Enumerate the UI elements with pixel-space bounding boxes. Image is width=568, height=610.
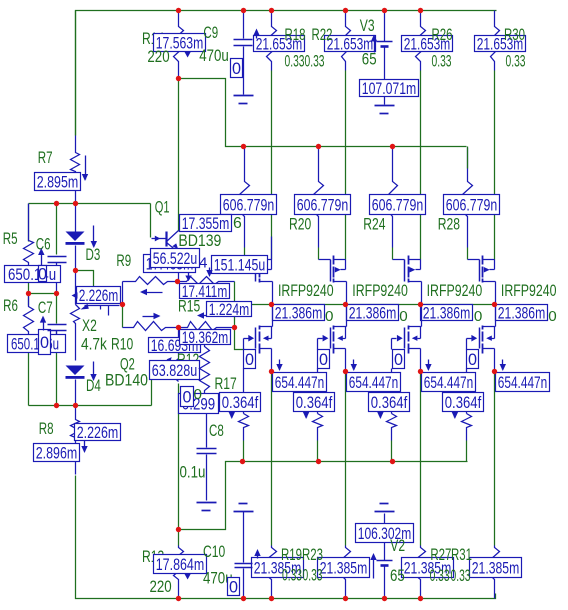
svg-text:BD139: BD139 [178,231,221,250]
value box R8 2.896m [34,444,80,463]
junction [316,459,321,464]
wire source column 3 down [420,372,422,546]
current arrow source 4 [502,360,504,370]
capacitor C6 [48,256,67,258]
svg-text:R27: R27 [430,545,451,564]
svg-text:IRFP9240: IRFP9240 [427,281,483,300]
value box gate 1 0.364f [220,393,261,413]
current arrow R8 [84,441,86,452]
value box R8 2.226m [75,423,121,442]
junction [269,302,274,307]
resistor R11 (Q1 emitter to output) [179,277,235,285]
resistor R23 [342,546,351,591]
value box gate 2 0.364f [294,393,335,413]
value box source 1 654.447n [273,373,327,393]
svg-text:R19: R19 [281,545,302,564]
value box V3 107.071m [360,79,419,98]
svg-text:0.364f: 0.364f [445,393,482,412]
value box source 2 654.447n [347,373,401,393]
junction [73,201,78,206]
current box C6 zero [38,266,47,284]
resistor R5 [24,204,34,266]
junction [241,144,246,149]
potentiometer X2 wiper [85,305,120,307]
svg-text:21.386m: 21.386m [498,304,546,323]
svg-text:C9: C9 [203,23,218,42]
wire D3 junction to current box [76,271,94,288]
junction [232,325,237,330]
MOSFET M4 upper IRFP9240 [480,256,496,305]
svg-text:0: 0 [394,351,403,369]
svg-text:0: 0 [182,389,191,407]
junction [26,291,31,296]
junction [120,302,125,307]
value box R14 17.563m [154,34,206,53]
svg-text:21.385m: 21.385m [472,559,520,578]
svg-text:107.071m: 107.071m [362,79,417,98]
svg-text:0.33: 0.33 [282,566,302,585]
svg-text:0.33: 0.33 [451,566,471,585]
svg-text:R22: R22 [312,25,333,44]
current arrow R13 [184,574,190,580]
junction [73,268,78,273]
value box M4 21.386m [496,304,548,323]
current arrow D4 [93,362,95,380]
svg-text:R17: R17 [215,374,237,393]
svg-text:0.33: 0.33 [430,566,450,585]
junction [269,8,274,13]
svg-text:21.385m: 21.385m [320,559,368,578]
current box gate 4 zero [467,350,479,370]
current box C10 zero [228,578,240,597]
svg-text:R9: R9 [116,251,131,270]
resistor R6 [24,294,34,335]
junction [390,459,395,464]
svg-text:BD140: BD140 [105,371,148,390]
current arrow R14 [184,52,190,58]
svg-text:R23: R23 [302,545,323,564]
svg-text:C7: C7 [38,298,53,317]
ground C8 [197,502,217,504]
value box 151.145u [212,256,268,275]
MOSFET M1 upper IRFP9240 [256,256,273,305]
svg-text:1.224m: 1.224m [209,300,250,319]
resistor R31 [491,546,500,591]
current box gate 1 zero [244,350,256,370]
svg-text:470u: 470u [199,46,229,65]
svg-text:2.226m: 2.226m [77,423,119,442]
current arrow source 3 [428,360,430,370]
value box R26 21.653m [402,35,453,54]
svg-text:0.33: 0.33 [506,52,526,71]
svg-text:220: 220 [147,47,169,66]
capacitor C7 [48,324,67,326]
resistor R18 [267,11,277,71]
svg-text:IRFP9240: IRFP9240 [501,281,557,300]
gate resistor R29 lower [462,369,472,462]
svg-text:0.33: 0.33 [285,52,305,71]
junction [241,8,246,13]
svg-text:R28: R28 [438,215,460,234]
wire bias row y405 [29,405,152,407]
svg-text:654.447n: 654.447n [424,373,474,392]
svg-text:0.33: 0.33 [432,52,452,71]
pin stub X2 wiper 1 [100,306,102,310]
svg-text:21.386m: 21.386m [423,304,471,323]
value box R22 21.653m [325,35,376,54]
svg-text:R8: R8 [39,419,54,438]
value box source 4 654.447n [496,373,550,393]
svg-text:C8: C8 [209,421,224,440]
junction [343,302,348,307]
value box R16 606.779n [221,195,277,215]
current arrow emitter Q1 [209,268,211,276]
svg-text:C10: C10 [203,542,225,561]
current box gate 3 zero [393,350,405,370]
wire top supply rail [76,11,497,136]
current arrow R9 [143,292,163,294]
value box R28 606.779n [444,195,500,215]
value box R24 606.779n [370,195,426,215]
value box V2 106.302m [356,524,414,544]
value box R13 17.864m [154,555,207,575]
svg-text:0.364f: 0.364f [222,393,259,412]
junction [73,403,78,408]
value box R20 606.779n [295,195,351,215]
wire Q1 collector from rail [178,79,180,232]
value box R19 21.385m [252,558,304,578]
wire Q2 base riser [151,371,153,406]
pin stub X2 wiper 2 [108,306,110,316]
gate lead arrow M8 [467,335,478,350]
wire R6 bottom to bias row [28,352,30,406]
svg-text:606.779n: 606.779n [223,196,275,215]
svg-text:0: 0 [232,60,241,78]
svg-text:151.145u: 151.145u [214,256,266,275]
svg-text:R30: R30 [504,25,525,44]
value box Q1 56.522u [151,249,200,269]
junction [382,8,387,13]
svg-text:21.386m: 21.386m [275,304,323,323]
svg-text:654.447n: 654.447n [349,373,399,392]
value box R15 1.224m [207,300,252,319]
current box C7 zero [39,330,51,355]
junction [176,527,181,532]
svg-text:0: 0 [319,351,328,369]
junction [418,596,423,601]
wire C7 lead down [56,294,58,324]
current arrow gate chain 2 [306,411,308,418]
junction [240,459,245,464]
svg-text:V2: V2 [390,536,405,555]
value box gate 3 0.364f [369,393,410,413]
capacitor C9 [243,11,245,39]
junction [175,279,180,284]
svg-text:0: 0 [38,266,47,284]
value box M3 21.386m [421,304,473,323]
current box C9 zero [231,59,243,79]
svg-text:R20: R20 [289,215,311,234]
svg-text:65: 65 [390,566,405,585]
MOSFET M5 lower IRFP9240 [256,305,273,372]
svg-text:6: 6 [233,215,242,232]
wire output node to col1 gate chain [235,328,245,350]
svg-text:R10: R10 [111,335,133,354]
svg-text:R24: R24 [363,215,385,234]
current arrow into X2 [72,292,78,298]
svg-text:0: 0 [40,334,49,352]
svg-text:0: 0 [325,308,333,325]
value box gate 4 0.364f [443,393,484,413]
junction [492,369,497,374]
junction [54,201,59,206]
current arrow C6 [41,251,43,266]
junction [343,596,348,601]
svg-text:0: 0 [245,351,254,369]
current arrow R19 [257,552,259,559]
resistor R26 [416,11,426,71]
ground C9 [234,95,254,97]
value box R6 650.156u [8,335,66,354]
resistor R19 [267,546,277,591]
svg-text:0: 0 [474,308,482,325]
wire output bus y305 [235,304,495,306]
wire bottom supply rail [76,476,496,599]
gate resistor R21 lower [313,369,323,462]
svg-text:0.33: 0.33 [303,566,323,585]
svg-text:Q1: Q1 [155,198,170,217]
junction [54,403,59,408]
wire Q2 collector node down x178 [178,384,180,530]
MOSFET M2 upper IRFP9240 [331,256,347,305]
svg-text:R6: R6 [3,296,18,315]
svg-text:0: 0 [194,386,202,403]
gate lead arrow M5 [244,335,255,350]
wire Q1 base drop [150,204,152,238]
value box R31 21.385m [470,558,522,578]
MOSFET M6 lower IRFP9240 [331,305,347,372]
gate resistor R20 upper [314,148,324,218]
resistor R15 [179,322,235,331]
capacitor C10 [239,503,248,505]
gate lead arrow M7 [392,335,403,350]
current arrow D3 [93,226,95,247]
svg-text:0.364f: 0.364f [371,393,408,412]
svg-text:R31: R31 [451,545,472,564]
current arrow R10 [143,316,159,318]
svg-text:IRFP9240: IRFP9240 [278,281,334,300]
current arrow C7 [43,318,45,331]
value box source 3 654.447n [422,373,476,393]
current arrow R15 [200,315,216,317]
current arrow gate chain 1 [231,411,233,418]
svg-text:R18: R18 [285,25,306,44]
svg-text:4.7k: 4.7k [81,335,107,354]
diode D3 [75,204,77,232]
gate resistor R28 upper [463,148,473,218]
junction [343,8,348,13]
svg-text:0: 0 [548,308,556,325]
resistor R30 [491,11,500,71]
svg-text:56.522u: 56.522u [153,249,198,268]
junction [176,325,181,330]
value box R10 16.693m [149,336,201,355]
junction [418,302,423,307]
junction [176,76,181,81]
svg-text:63.828u: 63.828u [152,361,198,380]
current arrow V2 [373,556,375,579]
svg-text:2.226m: 2.226m [79,286,119,305]
current box node zero x179 [181,387,194,407]
resistor R17 body [200,345,210,394]
current arrow source 2 [353,360,355,370]
svg-text:650.14u: 650.14u [8,265,56,284]
current arrow V3 [374,37,376,53]
svg-text:2.895m: 2.895m [37,173,79,192]
value box R11 17.411m [180,282,230,301]
battery V3 [384,11,386,42]
wire source column 1 down [271,372,273,546]
svg-text:0.364f: 0.364f [296,393,333,412]
current box gate 2 zero [318,350,330,370]
value box M2 21.386m [347,304,399,323]
svg-text:654.447n: 654.447n [498,373,548,392]
resistor R8 [71,406,80,475]
svg-text:R5: R5 [3,229,18,248]
svg-text:0: 0 [229,579,238,597]
gate resistor R17 lower [239,369,249,462]
svg-text:17.864m: 17.864m [156,555,205,574]
svg-text:0: 0 [399,308,407,325]
svg-text:21.386m: 21.386m [349,304,397,323]
value box R23 21.385m [318,558,370,578]
svg-text:606.779n: 606.779n [372,196,424,215]
svg-text:4: 4 [199,255,207,272]
resistor R22 [342,11,351,71]
potentiometer X2 body [75,271,77,305]
current arrow R7 [85,156,87,180]
wire ladder row y293 [29,293,57,295]
value box R27 21.385m [402,558,454,578]
svg-text:650.146u: 650.146u [11,335,59,354]
svg-text:0.33: 0.33 [305,52,325,71]
wire R7 top to rail [75,11,77,136]
resistor R27 [416,546,426,591]
resistor R7 [71,136,80,203]
wire output riser x234 [234,282,236,328]
wire bias row y203 [29,203,151,205]
current arrow gate chain 3 [380,411,382,418]
transistor Q2 BD140 [152,328,179,382]
junction [176,8,181,13]
value box R7 2.895m [35,173,81,192]
value box M1 21.386m [273,304,325,323]
junction [54,291,59,296]
resistor R10 [123,322,178,331]
battery V2 [384,514,386,524]
gate lead arrow M6 [318,335,329,350]
value box Q1 17.355m [180,214,232,233]
MOSFET M8 lower IRFP9240 [480,305,496,372]
capacitor C8 [206,414,208,448]
junction [390,144,395,149]
junction [241,596,246,601]
wire X2 wiper junction down to R10 [122,305,124,328]
resistor R14 [174,11,184,79]
value box R15 19.362m [180,328,231,347]
value box R18 21.653m [254,35,305,54]
svg-text:606.779n: 606.779n [297,196,349,215]
current arrow R18 [256,31,258,39]
svg-text:C6: C6 [36,235,51,254]
ground V3 [384,97,386,105]
svg-text:X2: X2 [82,316,97,335]
junction [492,302,497,307]
value box R30 21.653m [475,35,526,54]
svg-text:220: 220 [150,577,172,596]
wire source column 2 down [345,372,347,546]
svg-text:0: 0 [468,351,477,369]
junction [418,369,423,374]
wire lower gate bias rail y461 [179,462,468,530]
svg-text:D3: D3 [86,245,101,264]
value box R5 650.149u [5,265,61,284]
wire R5 branch down [28,204,30,242]
svg-text:R26: R26 [432,25,453,44]
diode D4 [66,366,85,376]
junction [269,369,274,374]
svg-text:IRFP9240: IRFP9240 [352,281,408,300]
svg-text:R7: R7 [38,148,53,167]
junction [382,596,387,601]
wire C7 bottom to bias row [56,331,58,406]
wire R6 lead down [28,283,30,306]
current arrow gate chain 4 [454,411,456,418]
svg-text:17.355m: 17.355m [182,214,230,233]
svg-text:654.447n: 654.447n [275,373,325,392]
value box Q2 63.828u [150,361,200,381]
gate resistor R24 upper [389,148,398,218]
gate resistor R16 upper [240,148,250,218]
value box Q1 hidden [144,255,196,274]
junction [418,8,423,13]
current arrow R11 [185,276,191,282]
svg-text:V3: V3 [360,16,375,35]
junction [316,144,321,149]
junction [269,596,274,601]
junction [343,369,348,374]
junction [176,596,181,601]
resistor R9 [123,277,178,285]
wire source column 4 down [494,372,496,546]
lead R9 left [122,282,124,304]
MOSFET M7 lower IRFP9240 [405,305,422,372]
svg-text:606.779n: 606.779n [446,196,498,215]
current arrow source 1 [279,360,281,370]
svg-text:2.896m: 2.896m [36,444,78,463]
svg-text:19.362m: 19.362m [182,328,229,347]
svg-text:0.1u: 0.1u [180,463,206,482]
wire R13 node [178,530,180,546]
transistor Q1 BD139 [152,231,179,282]
wire C6 branch down [56,204,58,255]
svg-text:R15: R15 [178,297,200,316]
value box D3 2.226m [77,286,121,305]
gate resistor R25 lower [387,369,397,462]
wire second rail (upper gate bias) [179,79,467,147]
MOSFET M3 upper IRFP9240 [405,256,422,305]
ground V2 (inverted) [380,503,389,505]
